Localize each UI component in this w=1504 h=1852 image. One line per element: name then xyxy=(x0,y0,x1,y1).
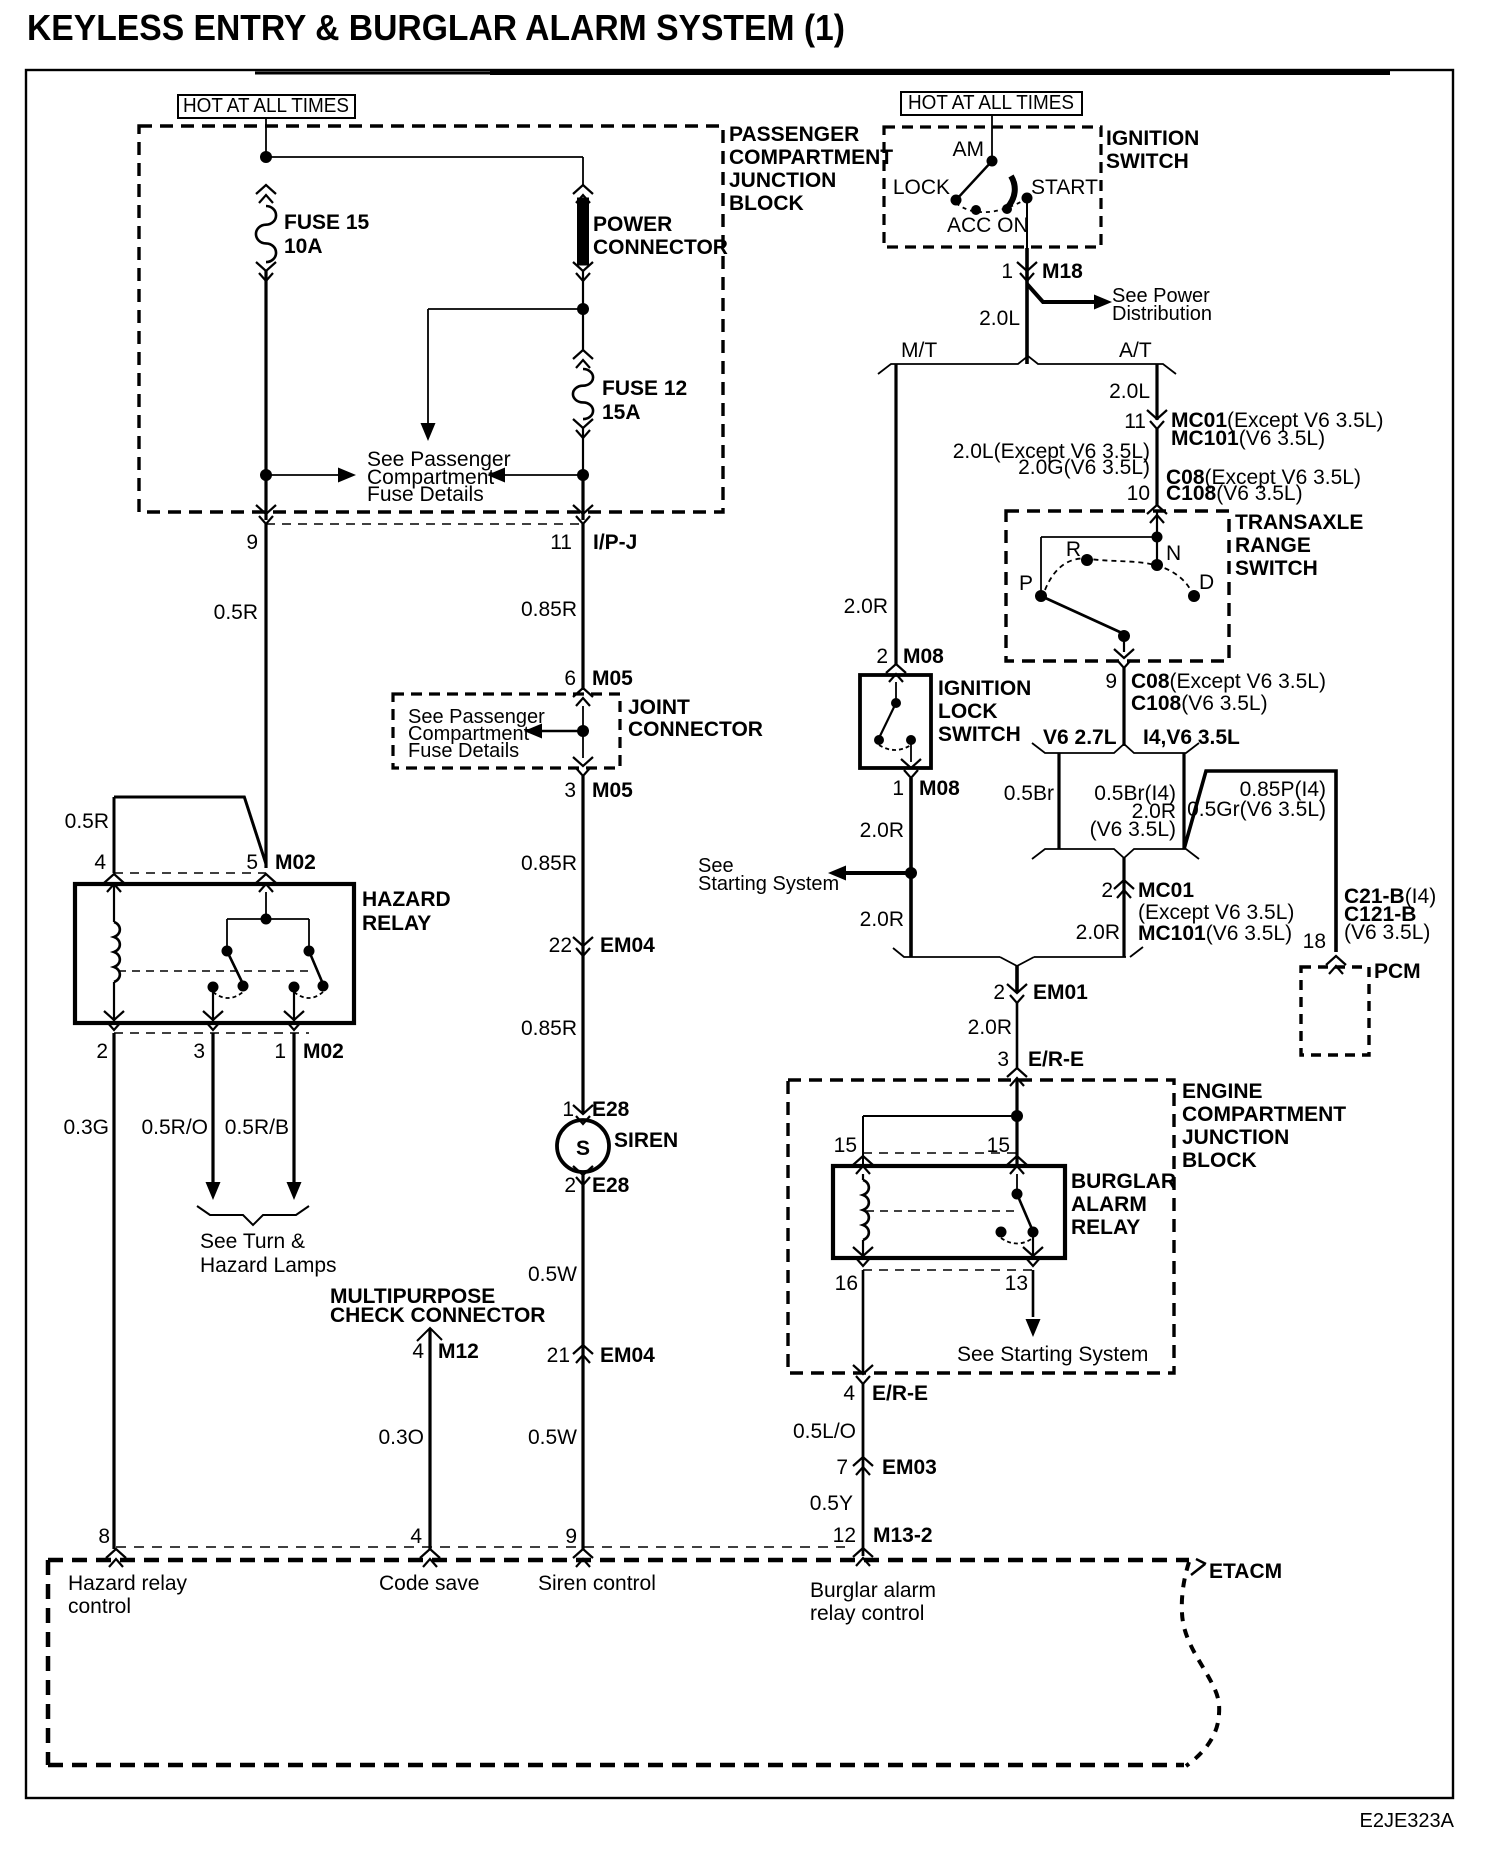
arrowhead see starting system xyxy=(1026,1319,1041,1337)
lock switch left contact xyxy=(874,735,884,745)
burglar alarm relay box xyxy=(833,1166,1065,1258)
wire START down xyxy=(1026,198,1028,248)
wire inside lock switch xyxy=(895,682,897,703)
svg-text:SIREN: SIREN xyxy=(614,1129,678,1152)
svg-text:HOT AT ALL TIMES: HOT AT ALL TIMES xyxy=(183,95,349,117)
svg-text:CONNECTOR: CONNECTOR xyxy=(593,236,728,259)
wire 0.85R to joint connector xyxy=(581,524,584,690)
svg-text:LOCK: LOCK xyxy=(938,700,998,723)
hazard relay coil xyxy=(113,884,115,922)
burglar relay terminal 13 xyxy=(1023,1247,1043,1266)
connector C08/C108 pin 9 (transaxle exit) xyxy=(1114,649,1134,668)
merge bus M08 + MC01 wires xyxy=(893,947,1143,957)
wire into transaxle switch xyxy=(1156,511,1158,565)
engine variant merge bracket bottom xyxy=(1032,849,1199,859)
svg-text:9: 9 xyxy=(1105,670,1117,693)
svg-text:EM04: EM04 xyxy=(600,934,655,957)
wire into fuse12 xyxy=(582,309,584,351)
svg-text:ALARM: ALARM xyxy=(1071,1193,1147,1216)
svg-text:Burglar alarm: Burglar alarm xyxy=(810,1579,936,1602)
wire from terminal 16 xyxy=(862,1270,865,1374)
svg-text:9: 9 xyxy=(246,531,258,554)
svg-text:0.5Br: 0.5Br xyxy=(1004,782,1054,805)
svg-text:0.5Gr(V6 3.5L): 0.5Gr(V6 3.5L) xyxy=(1187,798,1326,821)
ETACM dashed box xyxy=(48,1558,1189,1563)
wire 0.3O code save xyxy=(428,1329,431,1549)
connector EM04 pin 21 xyxy=(573,1345,593,1363)
hazard relay right contact arm xyxy=(309,951,323,984)
svg-text:M18: M18 xyxy=(1042,260,1083,283)
wire power connector down xyxy=(582,271,584,309)
svg-text:AM: AM xyxy=(953,138,985,161)
svg-text:7: 7 xyxy=(836,1456,848,1479)
svg-text:I/P-J: I/P-J xyxy=(593,531,637,554)
connector E28 pin 1 xyxy=(573,1105,593,1124)
connector E/R-E pin 3 (junction block entry) xyxy=(1007,1068,1027,1086)
arrow wire left xyxy=(503,474,583,476)
junction node fuse15/power-connector feed xyxy=(260,151,272,163)
transaxle P contact xyxy=(1035,590,1047,602)
connector M05 pin 3 xyxy=(573,757,593,776)
svg-text:EM04: EM04 xyxy=(600,1344,655,1367)
svg-text:R: R xyxy=(1066,538,1081,561)
svg-text:11: 11 xyxy=(550,531,572,554)
svg-text:4: 4 xyxy=(843,1382,855,1405)
connector I/P-J pin 9 xyxy=(256,505,276,524)
svg-text:M02: M02 xyxy=(275,851,316,874)
hazard relay mid dashed line xyxy=(118,970,312,972)
svg-text:CHECK CONNECTOR: CHECK CONNECTOR xyxy=(330,1304,545,1327)
wire 0.5W siren control xyxy=(581,1172,584,1549)
wire 0.5Br V6 2.7L branch xyxy=(1057,753,1060,849)
svg-text:BLOCK: BLOCK xyxy=(729,192,804,215)
svg-text:JOINT: JOINT xyxy=(628,696,690,719)
svg-text:POWER: POWER xyxy=(593,213,672,236)
svg-text:0.5R/B: 0.5R/B xyxy=(225,1116,289,1139)
svg-text:JUNCTION: JUNCTION xyxy=(1182,1126,1289,1149)
svg-text:Fuse Details: Fuse Details xyxy=(408,740,519,762)
svg-text:4: 4 xyxy=(94,851,106,874)
hazard relay box xyxy=(75,884,354,1023)
svg-text:SWITCH: SWITCH xyxy=(1106,150,1189,173)
lock switch right contact xyxy=(906,735,916,745)
svg-text:2: 2 xyxy=(876,645,888,668)
svg-text:TRANSAXLE: TRANSAXLE xyxy=(1235,511,1363,534)
connector EM03 pin 7 xyxy=(853,1457,873,1475)
svg-text:Siren control: Siren control xyxy=(538,1572,656,1595)
transaxle node xyxy=(1152,532,1163,543)
connector M02 bottom dashed row xyxy=(114,1032,309,1034)
burglar relay mid dashed line xyxy=(866,1210,1015,1212)
wire down to power connector xyxy=(582,157,584,186)
svg-text:6: 6 xyxy=(564,667,576,690)
svg-text:E2JE323A: E2JE323A xyxy=(1359,1810,1454,1832)
svg-text:M/T: M/T xyxy=(901,339,937,362)
svg-text:MC01: MC01 xyxy=(1138,879,1194,902)
wire fuse12 down xyxy=(582,428,584,476)
svg-text:(V6 3.5L): (V6 3.5L) xyxy=(1090,818,1176,841)
wire 0.5L/O - 0.5Y burglar alarm relay control xyxy=(862,1384,865,1556)
arrow wire right xyxy=(266,474,340,476)
svg-text:E/R-E: E/R-E xyxy=(1028,1048,1084,1071)
svg-text:CONNECTOR: CONNECTOR xyxy=(628,718,763,741)
ignition switch ACC contact xyxy=(971,205,981,215)
ignition switch dashed box xyxy=(884,127,1101,247)
svg-text:2.0R: 2.0R xyxy=(968,1016,1012,1039)
svg-text:See Turn &: See Turn & xyxy=(200,1230,305,1253)
connector C21-B/C121-B pin 18 xyxy=(1326,956,1346,974)
burglar relay contact arm xyxy=(1017,1194,1032,1229)
ignition switch ON contact xyxy=(1002,204,1012,214)
HOT AT ALL TIMES label (left) xyxy=(178,95,355,118)
connector E28 pin 2 xyxy=(573,1166,593,1185)
hazard relay terminal 2 xyxy=(104,1011,124,1030)
connector EM01 pin 2 xyxy=(1007,984,1027,1003)
ETACM corner arrow hook xyxy=(1191,1559,1206,1575)
branch wire to coil terminal 15 xyxy=(863,1115,1017,1117)
svg-text:3: 3 xyxy=(564,779,576,802)
arrowhead to turn and hazard lamps xyxy=(206,1182,221,1200)
branch wire to see passenger details xyxy=(428,308,583,310)
ETACM connector face thin dashed line xyxy=(116,1546,845,1548)
svg-text:2: 2 xyxy=(993,981,1005,1004)
svg-text:12: 12 xyxy=(833,1524,856,1547)
svg-text:0.85R: 0.85R xyxy=(521,598,577,621)
svg-text:LOCK: LOCK xyxy=(893,176,950,199)
svg-text:0.5Y: 0.5Y xyxy=(810,1492,853,1515)
burglar relay switch xyxy=(1016,1174,1018,1194)
ETACM pin 4 code save xyxy=(420,1549,440,1567)
svg-text:18: 18 xyxy=(1303,930,1326,953)
svg-text:3: 3 xyxy=(997,1048,1009,1071)
svg-text:EM01: EM01 xyxy=(1033,981,1088,1004)
open arrowhead up to check connector xyxy=(417,1328,442,1341)
joint connector dashed box xyxy=(393,694,620,768)
svg-text:HAZARD: HAZARD xyxy=(362,888,451,911)
lock switch arm xyxy=(879,703,896,738)
svg-text:0.5R/O: 0.5R/O xyxy=(141,1116,208,1139)
svg-text:13: 13 xyxy=(1005,1272,1028,1295)
svg-text:ENGINE: ENGINE xyxy=(1182,1080,1263,1103)
svg-text:10: 10 xyxy=(1127,482,1150,505)
svg-text:RELAY: RELAY xyxy=(362,912,431,935)
svg-text:MC101(V6 3.5L): MC101(V6 3.5L) xyxy=(1171,427,1325,450)
svg-text:E28: E28 xyxy=(592,1174,630,1197)
hazard relay terminal 3 xyxy=(203,1011,223,1030)
svg-text:N: N xyxy=(1166,542,1181,565)
svg-text:P: P xyxy=(1019,572,1033,595)
svg-text:4: 4 xyxy=(412,1340,424,1363)
svg-text:2: 2 xyxy=(1101,879,1113,902)
connector C08/C108 pin 10 (junction block exit) xyxy=(1147,505,1167,523)
svg-text:Hazard Lamps: Hazard Lamps xyxy=(200,1254,337,1277)
svg-text:IGNITION: IGNITION xyxy=(938,677,1031,700)
svg-text:0.5R: 0.5R xyxy=(65,810,109,833)
svg-text:0.3O: 0.3O xyxy=(378,1426,424,1449)
svg-text:Fuse Details: Fuse Details xyxy=(367,483,484,506)
svg-text:SWITCH: SWITCH xyxy=(938,723,1021,746)
svg-text:M12: M12 xyxy=(438,1340,479,1363)
wire thick to M18 xyxy=(1025,248,1029,281)
ignition switch travel dashed arc xyxy=(956,200,1024,212)
svg-text:Starting System: Starting System xyxy=(698,873,839,895)
svg-text:1: 1 xyxy=(274,1040,286,1063)
svg-text:15: 15 xyxy=(834,1134,857,1157)
svg-text:2: 2 xyxy=(96,1040,108,1063)
transaxle arm contact xyxy=(1118,630,1130,642)
node on fuse15 wire xyxy=(260,469,272,481)
svg-text:IGNITION: IGNITION xyxy=(1106,127,1199,150)
engine variant split bracket top xyxy=(1032,743,1199,753)
branch wire down xyxy=(427,309,429,424)
svg-text:2.0G(V6 3.5L): 2.0G(V6 3.5L) xyxy=(1018,456,1150,479)
svg-text:9: 9 xyxy=(565,1525,577,1548)
svg-text:21: 21 xyxy=(547,1344,570,1367)
svg-text:RELAY: RELAY xyxy=(1071,1216,1140,1239)
wire 2.0L A/T branch xyxy=(1155,364,1158,420)
svg-text:(V6 3.5L): (V6 3.5L) xyxy=(1344,921,1430,944)
svg-text:MC101(V6 3.5L): MC101(V6 3.5L) xyxy=(1138,922,1292,945)
arrow wire left inside joint connector xyxy=(538,730,583,733)
svg-text:BLOCK: BLOCK xyxy=(1182,1149,1257,1172)
wire fuse15 down to node xyxy=(264,271,267,476)
power connector xyxy=(573,185,593,203)
passenger compartment junction block dashed box xyxy=(139,126,723,512)
wire to I/P-J 11 xyxy=(581,475,584,520)
svg-text:11: 11 xyxy=(1124,410,1146,433)
svg-text:BURGLAR: BURGLAR xyxy=(1071,1170,1176,1193)
svg-text:8: 8 xyxy=(98,1525,110,1548)
svg-text:5: 5 xyxy=(246,851,258,874)
transaxle range switch dashed box xyxy=(1006,511,1229,661)
svg-text:D: D xyxy=(1199,571,1214,594)
wire into junction block xyxy=(1015,1078,1018,1166)
joint connector node xyxy=(577,725,589,737)
wire to I/P-J 9 xyxy=(264,475,267,520)
svg-text:C08(Except V6 3.5L): C08(Except V6 3.5L) xyxy=(1131,670,1326,693)
svg-text:A/T: A/T xyxy=(1119,339,1152,362)
svg-text:0.5R: 0.5R xyxy=(214,601,258,624)
transaxle N contact xyxy=(1151,559,1163,571)
transaxle D contact xyxy=(1188,590,1200,602)
node to relay coil and contact xyxy=(1011,1110,1023,1122)
wire 2.0R down to merge xyxy=(1122,880,1125,957)
svg-text:JUNCTION: JUNCTION xyxy=(729,169,836,192)
svg-text:22: 22 xyxy=(549,934,572,957)
node on fuse12 wire xyxy=(577,469,589,481)
connector I/P-J pin 11 xyxy=(573,505,593,524)
wire 0.85R to siren xyxy=(581,776,584,1114)
PCM dashed box xyxy=(1301,967,1369,1055)
svg-text:2.0R: 2.0R xyxy=(860,819,904,842)
see starting system arrow (left) xyxy=(844,871,911,875)
wire 2.0L xyxy=(1025,281,1029,364)
svg-text:2.0R: 2.0R xyxy=(844,595,888,618)
connector EM04 pin 22 xyxy=(573,937,593,956)
engine compartment junction block dashed box xyxy=(788,1080,1174,1373)
svg-text:V6 2.7L: V6 2.7L xyxy=(1043,726,1117,749)
svg-text:SWITCH: SWITCH xyxy=(1235,557,1318,580)
burglar relay coil xyxy=(862,1174,864,1180)
connector MC01/MC101 pin 2 xyxy=(1114,880,1134,898)
svg-text:START: START xyxy=(1031,176,1098,199)
svg-text:2: 2 xyxy=(564,1174,576,1197)
svg-text:FUSE 15: FUSE 15 xyxy=(284,211,370,234)
arrowhead pointing right xyxy=(338,468,356,483)
ignition switch arm AM-LOCK xyxy=(956,161,992,200)
svg-text:HOT AT ALL TIMES: HOT AT ALL TIMES xyxy=(908,92,1074,114)
svg-text:control: control xyxy=(68,1595,131,1618)
svg-text:E28: E28 xyxy=(592,1098,630,1121)
hazard relay terminal 4 xyxy=(104,874,124,892)
wire to MC01 pin 2 xyxy=(1122,858,1125,880)
ETACM pin 9 siren control xyxy=(573,1549,593,1567)
wire down to pin 4 xyxy=(113,797,116,873)
transaxle wire down to P xyxy=(1040,537,1042,593)
relay terminal row dashed line (bottom) xyxy=(863,1269,1033,1271)
connector M08 pin 1 xyxy=(901,759,921,778)
transaxle switch arm xyxy=(1041,596,1122,633)
svg-text:See Starting System: See Starting System xyxy=(957,1343,1148,1366)
ignition switch START contact xyxy=(1022,193,1033,204)
svg-text:2.0R: 2.0R xyxy=(860,908,904,931)
hazard relay left contact arm xyxy=(227,951,243,984)
connector I/P-J terminal row dashed line xyxy=(266,523,583,525)
svg-text:Distribution: Distribution xyxy=(1112,303,1212,325)
see power distribution arrow xyxy=(1027,284,1096,302)
svg-text:C108(V6 3.5L): C108(V6 3.5L) xyxy=(1166,482,1303,505)
svg-text:0.5L/O: 0.5L/O xyxy=(793,1420,856,1443)
ignition switch LOCK contact xyxy=(951,195,962,206)
diagonal branch wire xyxy=(244,796,266,864)
HOT AT ALL TIMES label (right) xyxy=(901,92,1082,115)
svg-text:3: 3 xyxy=(193,1040,205,1063)
svg-text:0.3G: 0.3G xyxy=(63,1116,109,1139)
svg-text:2.0L: 2.0L xyxy=(979,307,1020,330)
wire 0.5R/O xyxy=(211,1033,214,1184)
arrowhead see passenger fuse details xyxy=(421,423,436,441)
wire to EM01 xyxy=(1015,966,1019,993)
burglar relay terminal 16 xyxy=(853,1247,873,1266)
hazard relay terminal 5 xyxy=(256,874,276,892)
arrowhead pointing left xyxy=(487,468,505,483)
arrowhead to turn and hazard lamps xyxy=(287,1182,302,1200)
svg-text:C108(V6 3.5L): C108(V6 3.5L) xyxy=(1131,692,1268,715)
M/T A/T branch bus xyxy=(878,356,1176,374)
siren xyxy=(557,1120,609,1172)
burglar relay terminal 15 (contact) xyxy=(1007,1156,1027,1174)
connector M18 pin 1 xyxy=(1017,262,1037,281)
svg-text:PCM: PCM xyxy=(1374,960,1421,983)
wire 0.5R to hazard relay pin 5 xyxy=(264,524,267,868)
svg-text:relay control: relay control xyxy=(810,1602,924,1625)
svg-text:16: 16 xyxy=(835,1272,858,1295)
junction node to fuse12 and see-passenger branch xyxy=(577,303,589,315)
svg-text:1: 1 xyxy=(892,777,904,800)
junction block exit terminal xyxy=(853,1365,873,1384)
wire 0.5R/B xyxy=(292,1033,295,1184)
svg-text:M02: M02 xyxy=(303,1040,344,1063)
wire 2.0R from lock switch xyxy=(909,778,913,957)
svg-text:M05: M05 xyxy=(592,667,633,690)
svg-text:I4,V6 3.5L: I4,V6 3.5L xyxy=(1143,726,1240,749)
hazard relay terminal 1 xyxy=(284,1011,304,1030)
brace see turn and hazard lamps xyxy=(197,1206,309,1225)
svg-text:2.0R: 2.0R xyxy=(1076,921,1120,944)
transaxle R contact xyxy=(1081,554,1093,566)
svg-text:COMPARTMENT: COMPARTMENT xyxy=(729,146,893,169)
transaxle selector dashed arc xyxy=(1045,558,1191,591)
wire to engine split xyxy=(1122,668,1125,746)
svg-text:Code save: Code save xyxy=(379,1572,479,1595)
svg-text:0.5W: 0.5W xyxy=(528,1426,577,1449)
ETACM pin 8 hazard relay control xyxy=(106,1549,126,1567)
svg-text:ACC ON: ACC ON xyxy=(947,214,1029,237)
connector M05 pin 6 xyxy=(573,688,593,706)
svg-text:0.85R: 0.85R xyxy=(521,1017,577,1040)
lock switch pivot contact xyxy=(891,698,901,708)
svg-text:Hazard relay: Hazard relay xyxy=(68,1572,188,1595)
wire 0.5Br/2.0R I4-V63.5 branch xyxy=(1182,753,1185,849)
svg-text:FUSE 12: FUSE 12 xyxy=(602,377,687,400)
wire to starting system xyxy=(1032,1270,1035,1317)
wire 0.85P/0.5Gr to PCM xyxy=(1184,771,1336,952)
svg-text:(Except V6 3.5L): (Except V6 3.5L) xyxy=(1138,901,1294,924)
svg-text:1: 1 xyxy=(562,1098,574,1121)
wire 0.3G hazard relay control xyxy=(112,1033,115,1549)
wire inside joint connector xyxy=(582,706,584,758)
svg-text:RANGE: RANGE xyxy=(1235,534,1311,557)
svg-text:E/R-E: E/R-E xyxy=(872,1382,928,1405)
svg-text:M05: M05 xyxy=(592,779,633,802)
ignition switch AM contact xyxy=(987,156,998,167)
hazard relay switch xyxy=(265,892,267,919)
node to starting system xyxy=(905,867,917,879)
svg-text:COMPARTMENT: COMPARTMENT xyxy=(1182,1103,1346,1126)
svg-text:M08: M08 xyxy=(919,777,960,800)
connector M08 pin 2 xyxy=(886,664,906,682)
svg-text:ETACM: ETACM xyxy=(1209,1560,1282,1583)
arrowhead joint connector xyxy=(524,724,542,739)
svg-text:EM03: EM03 xyxy=(882,1456,937,1479)
svg-text:S: S xyxy=(576,1137,590,1160)
svg-text:0.85R: 0.85R xyxy=(521,852,577,875)
svg-text:10A: 10A xyxy=(284,235,323,258)
svg-text:0.5W: 0.5W xyxy=(528,1263,577,1286)
transaxle top wire xyxy=(1041,536,1157,538)
wire 2.0R M/T branch xyxy=(894,364,897,664)
wire 2.0R to E/R-E xyxy=(1016,1003,1019,1068)
connector M02 top dashed row xyxy=(114,872,266,874)
ignition switch key arm xyxy=(1007,176,1015,208)
wire node to power connector xyxy=(266,156,583,158)
wire from HOT AT ALL TIMES into junction block xyxy=(265,118,267,157)
wire 2.0L/2.0G xyxy=(1155,429,1158,506)
svg-text:M08: M08 xyxy=(903,645,944,668)
svg-text:KEYLESS ENTRY & BURGLAR ALARM: KEYLESS ENTRY & BURGLAR ALARM SYSTEM (1) xyxy=(27,7,845,48)
ignition lock switch box xyxy=(860,675,931,768)
svg-text:4: 4 xyxy=(410,1525,422,1548)
burglar relay terminal 15 (coil) xyxy=(853,1156,873,1174)
fuse F15 10A xyxy=(256,185,276,203)
svg-text:15A: 15A xyxy=(602,401,641,424)
wire HOT to AM contact xyxy=(991,115,993,161)
svg-text:M13-2: M13-2 xyxy=(873,1524,933,1547)
branch wire to hazard relay pin 4 xyxy=(114,796,245,799)
connector MC01/MC101 pin 11 xyxy=(1147,410,1167,429)
relay terminal row dashed line (top) xyxy=(863,1152,1017,1154)
svg-text:2.0L: 2.0L xyxy=(1109,380,1150,403)
